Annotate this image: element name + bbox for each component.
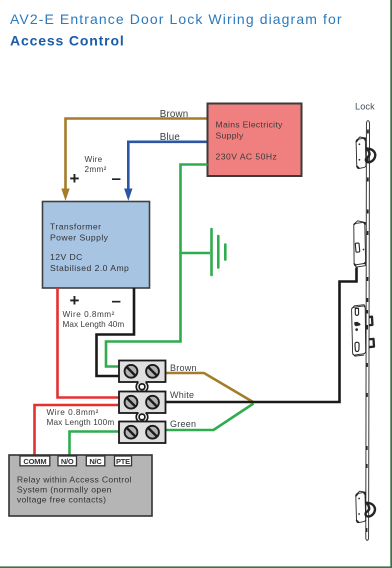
hook bolt top [366, 149, 375, 163]
wire brown mains to transformer [66, 119, 208, 190]
svg-text:Relay within Access Control: Relay within Access Control [17, 474, 132, 484]
wire blue mains to transformer [128, 142, 207, 190]
bottom hook lock case [356, 491, 369, 522]
terminal block 1 [119, 361, 166, 383]
wire white (black) terminal block 2 to lock [166, 268, 357, 403]
svg-text:Max Length 100m: Max Length 100m [47, 418, 115, 427]
svg-text:230V AC 50Hz: 230V AC 50Hz [216, 151, 278, 161]
top keyhole [355, 308, 358, 315]
svg-text:Wire 0.8mm²: Wire 0.8mm² [63, 310, 115, 319]
svg-text:White: White [170, 390, 194, 400]
wire green mains to earth and terminal block [106, 165, 208, 367]
connector link 1 [136, 381, 147, 393]
svg-text:Green: Green [170, 419, 196, 429]
svg-text:Max Length 40m: Max Length 40m [63, 320, 125, 329]
svg-text:voltage free contacts): voltage free contacts) [17, 494, 106, 504]
svg-text:Brown: Brown [160, 109, 189, 120]
svg-text:–: – [112, 169, 121, 188]
svg-text:Brown: Brown [170, 363, 197, 373]
wire red transformer plus to terminal block 2 [58, 288, 120, 398]
hook bolt bottom [366, 503, 375, 517]
svg-text:12V DC: 12V DC [50, 252, 83, 262]
svg-text:–: – [112, 291, 121, 310]
mains electricity supply box [208, 104, 302, 177]
middle lock case [354, 221, 368, 267]
terminal PTE [115, 456, 132, 466]
svg-text:Stabilised 2.0 Amp: Stabilised 2.0 Amp [50, 263, 129, 273]
wire brown terminal block 1 to lock cable junction [166, 373, 254, 402]
wire green terminal block 3 to N/O [70, 432, 120, 457]
svg-text:Power Supply: Power Supply [50, 233, 109, 243]
svg-text:Wire 0.8mm²: Wire 0.8mm² [47, 408, 99, 417]
arrowhead brown [61, 189, 69, 201]
follower blob [354, 322, 360, 327]
bolt lower [368, 339, 374, 347]
svg-text:Transformer: Transformer [50, 222, 101, 232]
svg-text:Lock: Lock [355, 102, 375, 112]
strip screw dashes [367, 130, 368, 533]
terminal block 2 [119, 392, 166, 414]
wire red terminal block 2 to COMM [35, 405, 120, 457]
main lock case [352, 305, 374, 357]
svg-text:+: + [70, 169, 80, 188]
page border bottom [0, 566, 392, 568]
transformer power supply box [43, 202, 150, 289]
svg-text:AV2-E Entrance Door Lock Wirin: AV2-E Entrance Door Lock Wiring diagram … [10, 11, 343, 27]
svg-text:2mm²: 2mm² [85, 165, 107, 174]
svg-text:N/C: N/C [89, 457, 102, 466]
terminal COMM [20, 456, 50, 466]
terminal block 3 [119, 422, 166, 444]
svg-text:+: + [70, 291, 80, 310]
lock faceplate strip [366, 121, 370, 541]
svg-text:Access Control: Access Control [10, 33, 125, 49]
svg-text:Mains Electricity: Mains Electricity [216, 119, 284, 129]
lock drawing [352, 121, 376, 541]
cylinder keyhole [355, 342, 359, 351]
latch bolt upper [367, 317, 372, 326]
svg-text:N/O: N/O [61, 457, 74, 466]
wire green earth branch [181, 252, 211, 255]
svg-text:Supply: Supply [216, 130, 244, 140]
relay box [9, 455, 152, 516]
svg-text:PTE: PTE [116, 457, 130, 466]
wire green terminal block 3 to lock cable junction [166, 404, 254, 431]
ground symbol [212, 229, 226, 275]
svg-text:Blue: Blue [160, 132, 181, 143]
page border right [390, 0, 392, 568]
svg-text:Wire: Wire [85, 155, 103, 164]
arrowhead blue [124, 189, 132, 201]
terminal N/O [58, 456, 77, 466]
wire black transformer minus to terminal block 1 [97, 288, 135, 376]
top hook lock case [356, 137, 369, 168]
connector link 2 [136, 412, 147, 423]
svg-text:System (normally open: System (normally open [17, 484, 112, 494]
terminal N/C [86, 456, 105, 466]
svg-text:COMM: COMM [23, 457, 46, 466]
